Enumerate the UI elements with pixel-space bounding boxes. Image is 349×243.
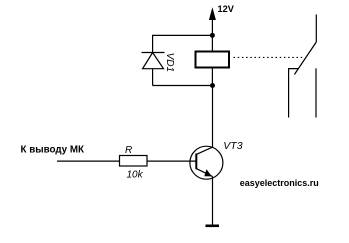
- relay contact common wire: [315, 15, 317, 43]
- power 12V arrow: [209, 7, 216, 20]
- mechanical link dashed line: [234, 56, 303, 58]
- relay contact blade: [294, 42, 316, 75]
- wire relay bottom lead: [211, 69, 213, 86]
- relay coil: [196, 52, 230, 68]
- wire emitter vertical: [212, 177, 214, 226]
- wire collector vertical: [212, 86, 214, 148]
- transistor VT3: [190, 146, 223, 179]
- svg-text:R: R: [125, 145, 132, 156]
- svg-text:12V: 12V: [218, 4, 235, 14]
- wire VD1 anode stub: [152, 69, 154, 86]
- svg-text:VD1: VD1: [164, 53, 175, 72]
- wire 12V rail vertical: [211, 18, 213, 35]
- svg-text:К выводу МК: К выводу МК: [21, 145, 85, 156]
- wire top horizontal to VD1: [153, 34, 213, 36]
- svg-text:easyelectronics.ru: easyelectronics.ru: [240, 178, 319, 188]
- wire resistor to base: [147, 160, 196, 162]
- wire VD1 cathode stub: [152, 35, 154, 53]
- resistor R 10k: [120, 156, 148, 167]
- diode VD1: [142, 53, 165, 69]
- node junction bottom (VD1 / relay / collector): [210, 83, 215, 88]
- wire bottom horizontal from VD1: [153, 85, 213, 87]
- wire base left segment: [57, 160, 120, 162]
- svg-text:VT3: VT3: [223, 140, 242, 152]
- ground: [206, 225, 220, 228]
- wire relay top lead: [211, 35, 213, 50]
- svg-text:10k: 10k: [127, 169, 144, 180]
- node junction top (rail / VD1 / relay): [210, 33, 215, 38]
- relay contact NO terminal: [315, 68, 317, 117]
- relay contact NC terminal: [289, 69, 299, 118]
